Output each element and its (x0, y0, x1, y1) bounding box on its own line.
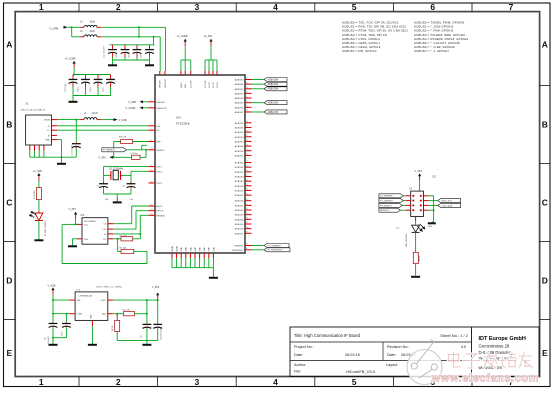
wire (415, 264, 417, 276)
svg-text:C8: C8 (45, 337, 47, 340)
svg-text:USB micro-B Input SMD 5U: USB micro-B Input SMD 5U (21, 108, 46, 111)
svg-text:100n: 100n (90, 88, 92, 92)
svg-text:V_CORE: V_CORE (126, 107, 136, 110)
node FT_RESET flag (102, 148, 149, 152)
svg-text:L1: L1 (84, 113, 87, 115)
supply flag V_3P3 (415, 170, 423, 191)
svg-text:TXD2_SDA: TXD2_SDA (441, 204, 452, 207)
svg-text:PREGOUT: PREGOUT (156, 108, 167, 110)
wire testpoint (142, 145, 147, 150)
svg-text:V_USB: V_USB (119, 119, 127, 122)
svg-text:ADBUS1: ADBUS1 (235, 83, 245, 86)
svg-text:EECS: EECS (156, 206, 162, 208)
svg-text:4: 4 (273, 2, 278, 12)
svg-text:V_3P3: V_3P3 (69, 208, 77, 211)
wire (57, 119, 80, 121)
svg-text:Author:: Author: (294, 363, 306, 367)
svg-text:Date:: Date: (294, 353, 303, 357)
svg-text:AGND: AGND (176, 245, 179, 251)
svg-text:V_3P3: V_3P3 (415, 170, 423, 173)
svg-text:A: A (6, 39, 12, 49)
svg-text:28: 28 (246, 140, 248, 142)
svg-text:23: 23 (151, 209, 153, 211)
svg-text:BDBUS7: BDBUS7 (235, 233, 245, 235)
svg-text:21: 21 (246, 101, 248, 103)
svg-text:I2C: I2C (433, 176, 437, 179)
svg-text:C6 100n: C6 100n (130, 153, 138, 155)
svg-text:D1 LED 1206/PY: D1 LED 1206/PY (45, 220, 47, 236)
node ADBUS7 flag (264, 110, 287, 114)
svg-text:34: 34 (246, 170, 248, 172)
svg-text:32: 32 (246, 161, 248, 163)
svg-text:ACBUS1: ACBUS1 (235, 126, 245, 129)
svg-text:ADBUS5#: ADBUS5# (268, 102, 279, 105)
svg-text:1: 1 (39, 377, 44, 387)
svg-text:BCBUS0: BCBUS0 (235, 163, 245, 165)
svg-text:B: B (542, 120, 548, 130)
node FT_SUSPEND flag (379, 199, 406, 203)
IC IC5 LP3990 regulator body (70, 287, 122, 326)
resistor R3 (112, 314, 120, 341)
wire (252, 102, 265, 104)
svg-text:VSS: VSS (84, 239, 89, 241)
svg-text:C11 10u/16V: C11 10u/16V (104, 46, 106, 58)
svg-text:27: 27 (246, 135, 248, 137)
svg-text:SUSPEND#: SUSPEND# (232, 250, 245, 252)
svg-text:FT2232HL: FT2232HL (176, 122, 191, 126)
title block IDT address (479, 336, 526, 370)
ground (68, 245, 77, 247)
svg-text:V_3P3: V_3P3 (152, 286, 160, 289)
svg-text:Date:: Date: (387, 353, 396, 357)
svg-text:IC5: IC5 (77, 289, 81, 291)
wire (159, 37, 161, 71)
wire D- (57, 125, 149, 127)
inductor L3 (80, 31, 101, 37)
node ADBUS2 flag (264, 87, 287, 91)
node FT_RESET flag (379, 203, 406, 207)
svg-text:Sheet No.: 1 / 2: Sheet No.: 1 / 2 (440, 333, 469, 338)
LED D2 (397, 224, 426, 247)
svg-text:BDBUS6: BDBUS6 (235, 229, 245, 231)
wire CS (113, 206, 149, 224)
svg-text:ADBUS0: ADBUS0 (235, 79, 245, 82)
svg-text:ACBUS7 = *, 1, GPIOH7: ACBUS7 = *, 1, GPIOH7 (414, 49, 449, 53)
svg-text:49: 49 (246, 248, 248, 250)
svg-text:2: 2 (116, 377, 121, 387)
svg-text:E: E (542, 348, 548, 358)
LED D1 (29, 211, 47, 236)
wire (415, 217, 417, 226)
svg-text:E: E (6, 348, 12, 358)
svg-text:R1 470R: R1 470R (34, 191, 36, 199)
svg-text:C3: C3 (122, 185, 126, 187)
wire (113, 142, 115, 158)
wire (165, 27, 167, 71)
svg-text:19: 19 (246, 92, 248, 94)
svg-text:BDBUS2: BDBUS2 (235, 210, 245, 212)
svg-text:ADBUS4: ADBUS4 (235, 97, 245, 100)
svg-text:GND: GND (428, 226, 433, 228)
svg-text:REF: REF (156, 142, 161, 144)
ground GND (428, 223, 436, 228)
svg-text:3: 3 (195, 377, 200, 387)
svg-text:EECLK: EECLK (156, 211, 164, 213)
svg-text:93LC46B/SN: 93LC46B/SN (84, 221, 96, 223)
svg-text:1: 1 (39, 2, 44, 12)
resistor R4 (114, 137, 149, 144)
svg-text:BCBUS3: BCBUS3 (235, 176, 245, 178)
IC U4 FT2232HL body (155, 75, 245, 253)
wire (52, 337, 66, 344)
svg-text:27p: 27p (130, 199, 134, 201)
wire (104, 194, 132, 202)
svg-text:D2: D2 (397, 227, 401, 229)
node ADBUS5 flag (264, 101, 287, 105)
svg-text:FT_PWREN#: FT_PWREN# (268, 245, 282, 247)
supply flag V_USB (48, 284, 56, 300)
svg-text:L2: L2 (80, 22, 83, 24)
svg-text:C10 47n/16V: C10 47n/16V (161, 328, 163, 340)
svg-text:VCCIOB: VCCIOB (191, 80, 193, 88)
svg-text:+V_CORE: +V_CORE (177, 35, 189, 38)
svg-text:BCBUS5: BCBUS5 (235, 186, 245, 188)
svg-text:FT_RESET#: FT_RESET# (380, 205, 393, 207)
svg-text:BCBUS2: BCBUS2 (235, 172, 245, 174)
wire (252, 79, 265, 81)
svg-text:48: 48 (246, 244, 248, 246)
svg-text:ADBUS7: ADBUS7 (235, 111, 245, 114)
svg-text:FT_PWREN#: FT_PWREN# (380, 196, 393, 198)
svg-text:26: 26 (246, 130, 248, 132)
svg-text:ADJ: ADJ (102, 313, 106, 316)
svg-text:EEDATA: EEDATA (156, 214, 165, 217)
wire (252, 111, 265, 113)
svg-text:PWREN#: PWREN# (234, 246, 244, 248)
node RXD2_SCL flag (429, 199, 461, 203)
svg-text:OSCI: OSCI (156, 167, 162, 169)
svg-text:ADBUS7#: ADBUS7# (268, 111, 279, 114)
svg-text:OSCO: OSCO (156, 171, 163, 173)
capacitor C12 (62, 314, 71, 338)
svg-text:30: 30 (246, 149, 248, 151)
svg-text:BCBUS7: BCBUS7 (235, 195, 245, 197)
svg-text:C: C (6, 198, 12, 208)
supply flag +V_3P3 comb (204, 35, 218, 71)
svg-text:www.elecfans.com: www.elecfans.com (431, 372, 539, 384)
svg-text:25: 25 (151, 214, 153, 216)
inductor L2 (80, 22, 101, 28)
capacitor bank C11 C17 C18 C19 (104, 45, 154, 65)
svg-text:Title: High Communication IF B: Title: High Communication IF Board (294, 333, 361, 338)
wire CLK (113, 211, 149, 229)
svg-text:ACBUS4: ACBUS4 (235, 140, 245, 143)
svg-text:100n: 100n (78, 88, 80, 92)
svg-text:ADBUS2#: ADBUS2# (268, 88, 279, 91)
wire (72, 27, 80, 37)
title block (290, 327, 539, 377)
svg-text:A: A (542, 39, 548, 49)
svg-text:20: 20 (246, 96, 248, 98)
capacitor C3 (122, 175, 135, 201)
node V_GPB input flag (128, 100, 149, 103)
svg-text:4: 4 (273, 377, 278, 387)
svg-text:R3 1K: R3 1K (112, 325, 114, 331)
svg-text:FT_SUSPND#: FT_SUSPND# (380, 201, 394, 203)
node FT_PWREN flag (379, 194, 406, 198)
svg-text:C13 100n: C13 100n (65, 83, 67, 92)
svg-text:44: 44 (246, 218, 248, 220)
capacitor C2 (97, 175, 110, 201)
svg-text:GND: GND (209, 247, 211, 252)
connector X2 I2C header (406, 176, 437, 217)
svg-text:ACBUS3: ACBUS3 (235, 136, 245, 139)
svg-text:C1 10n/16V: C1 10n/16V (72, 145, 74, 156)
svg-text:41: 41 (246, 204, 248, 206)
IC4 left pins (149, 100, 168, 217)
svg-text:X1: X1 (26, 102, 30, 106)
svg-text:23: 23 (246, 110, 248, 112)
wire VOUT (113, 299, 159, 301)
svg-text:File:: File: (294, 370, 301, 374)
svg-text:45: 45 (246, 222, 248, 224)
svg-text:GND: GND (213, 247, 215, 252)
svg-text:42: 42 (246, 208, 248, 210)
svg-text:L3: L3 (80, 31, 83, 33)
svg-text:GND: GND (91, 314, 93, 319)
capacitor C10 (153, 300, 162, 341)
svg-text:VCCIOB: VCCIOB (205, 80, 207, 88)
wire DI (113, 215, 149, 235)
svg-text:22: 22 (246, 106, 248, 108)
svg-text:43: 43 (246, 213, 248, 215)
capacitor C9 (141, 314, 152, 341)
svg-text:ACBUS2: ACBUS2 (235, 131, 245, 134)
svg-text:2: 2 (116, 2, 121, 12)
svg-text:3: 3 (151, 100, 152, 102)
svg-text:ADBUS6: ADBUS6 (235, 106, 245, 109)
svg-text:BDBUS4: BDBUS4 (235, 219, 245, 221)
wire (429, 196, 434, 222)
svg-text:RXD2_SCL: RXD2_SCL (441, 201, 453, 203)
svg-text:ACBUS0: ACBUS0 (235, 122, 245, 125)
capacitor C6 (114, 153, 146, 159)
svg-text:17: 17 (246, 82, 248, 84)
ground (113, 201, 122, 203)
svg-text:21: 21 (151, 204, 153, 206)
resistor R7 (118, 239, 147, 254)
svg-text:VOUT = VSET x (1 + R1/R2): VOUT = VSET x (1 + R1/R2) (96, 287, 122, 289)
wire (62, 224, 77, 263)
svg-text:39: 39 (246, 193, 248, 195)
svg-text:100n: 100n (141, 54, 143, 58)
IC4 bottom ground pins (171, 245, 215, 277)
wire (52, 313, 70, 315)
svg-text:GND: GND (190, 247, 192, 252)
svg-text:100n: 100n (62, 332, 64, 336)
node ADBUS1 flag (264, 82, 287, 86)
svg-text:+V_CORE: +V_CORE (65, 58, 77, 61)
svg-text:33: 33 (246, 165, 248, 167)
wire (73, 239, 78, 246)
wire (145, 149, 147, 158)
svg-text:D: D (6, 276, 12, 286)
svg-text:V_3P3: V_3P3 (99, 156, 107, 159)
svg-text:V_EN: V_EN (77, 314, 83, 316)
svg-text:HiComIFB_V3-0: HiComIFB_V3-0 (346, 369, 376, 374)
wire OSCO (131, 171, 149, 175)
resistor R5 (113, 300, 148, 316)
inductor L1 (80, 113, 101, 120)
node TXD2_SDA flag (429, 203, 461, 207)
capacitor C1 (72, 120, 81, 158)
svg-text:B: B (6, 120, 12, 130)
wire (52, 299, 70, 314)
capacitor bank C13 C14 C15 C16 (65, 74, 115, 102)
svg-text:BCBUS6: BCBUS6 (235, 190, 245, 192)
svg-text:Project No.:: Project No.: (294, 345, 314, 349)
ground (49, 344, 58, 346)
svg-text:DO: DO (103, 239, 107, 241)
svg-text:VIN: VIN (77, 300, 81, 302)
svg-text:BCBUS4: BCBUS4 (235, 181, 245, 183)
svg-text:LP3990SD-A#: LP3990SD-A# (79, 294, 94, 297)
svg-text:BDBUS5: BDBUS5 (235, 224, 245, 226)
svg-text:3.0: 3.0 (461, 345, 466, 349)
svg-text:13: 13 (151, 148, 153, 150)
svg-text:9: 9 (151, 129, 152, 131)
supply flag V_3P3 (69, 208, 78, 225)
svg-text:VCCIO: VCCIO (209, 81, 211, 88)
svg-text:VCCIO: VCCIO (213, 81, 215, 88)
svg-text:ADBUS0#: ADBUS0# (268, 78, 279, 81)
svg-text:R2 1K: R2 1K (419, 255, 421, 261)
svg-text:37: 37 (246, 184, 248, 186)
svg-text:17: 17 (151, 170, 153, 172)
svg-text:ACBUS6: ACBUS6 (235, 150, 245, 153)
svg-text:GND: GND (200, 247, 202, 252)
capacitor C8 (45, 314, 58, 344)
wire (57, 140, 62, 158)
svg-text:V_USB: V_USB (48, 284, 56, 287)
ground (142, 344, 151, 346)
svg-text:+V_3P3: +V_3P3 (204, 35, 213, 38)
node ADBUS7 flag (379, 208, 406, 212)
svg-text:ADBUS5: ADBUS5 (235, 102, 245, 105)
svg-text:25: 25 (246, 126, 248, 128)
svg-text:FT_SUSPEND#: FT_SUSPEND# (268, 250, 284, 252)
svg-text:Layout: Layout (386, 363, 398, 367)
svg-text:19: 19 (151, 181, 153, 183)
watermark elecfans (407, 340, 539, 385)
svg-text:V_GPB: V_GPB (128, 101, 136, 104)
svg-text:VOUT: VOUT (100, 300, 107, 302)
supply flag +V_CORE comb (177, 35, 191, 71)
ground (145, 64, 154, 66)
node V_USB flag (101, 118, 127, 122)
svg-text:BCBUS1: BCBUS1 (235, 167, 245, 169)
wire (110, 37, 155, 45)
ground (108, 64, 117, 66)
svg-text:40: 40 (246, 199, 248, 201)
svg-text:CS: CS (103, 224, 107, 226)
svg-text:6: 6 (430, 2, 435, 12)
svg-text:100n: 100n (103, 88, 105, 92)
svg-text:7: 7 (509, 2, 514, 12)
ground (88, 344, 97, 346)
svg-text:18: 18 (246, 87, 248, 89)
svg-text:31: 31 (246, 154, 248, 156)
svg-text:DP: DP (156, 130, 160, 132)
svg-text:X2: X2 (409, 188, 413, 191)
svg-text:ADBUS7#: ADBUS7# (380, 209, 390, 212)
svg-text:10uH: 10uH (90, 31, 96, 33)
svg-text:47: 47 (246, 232, 248, 234)
svg-text:VPLL: VPLL (185, 83, 187, 88)
svg-text:R4 12K: R4 12K (119, 137, 127, 139)
svg-text:PHLGIN: PHLGIN (156, 102, 165, 104)
IC IC6 93LC46B EEPROM body (77, 214, 113, 244)
wire (429, 209, 435, 211)
resistor R6 (113, 234, 140, 241)
svg-text:AGND: AGND (171, 245, 174, 251)
resistor R1 (34, 188, 42, 200)
svg-text:10uH: 10uH (90, 22, 96, 24)
svg-text:35: 35 (246, 175, 248, 177)
ground (411, 276, 420, 278)
svg-text:FT_RESET#: FT_RESET# (103, 150, 116, 152)
ground (209, 277, 218, 279)
svg-text:VBUS: VBUS (44, 120, 50, 122)
svg-text:15: 15 (151, 165, 153, 167)
svg-text:ACBUS7: ACBUS7 (235, 154, 245, 157)
svg-text:100n: 100n (129, 54, 131, 58)
supply flag +V_CORE (65, 58, 77, 75)
wire (117, 340, 158, 342)
svg-text:38: 38 (246, 189, 248, 191)
wire (62, 251, 147, 263)
wire (415, 232, 417, 252)
node V_CORE input flag (126, 106, 149, 109)
svg-text:VCC: VCC (84, 224, 89, 226)
svg-text:GND: GND (204, 247, 206, 252)
svg-text:GND: GND (186, 247, 188, 252)
svg-text:7: 7 (151, 124, 152, 126)
wire (252, 245, 265, 247)
svg-text:28.03.18: 28.03.18 (345, 353, 360, 357)
wire (252, 88, 265, 90)
svg-text:RESET#: RESET# (156, 150, 165, 152)
svg-text:IDT Europe GmbH: IDT Europe GmbH (479, 336, 526, 342)
svg-text:5: 5 (352, 377, 357, 387)
svg-text:GND: GND (195, 247, 197, 252)
svg-text:C9: C9 (141, 335, 143, 338)
svg-text:5: 5 (151, 106, 152, 108)
svg-text:10uH: 10uH (92, 113, 98, 115)
svg-text:VREGIN: VREGIN (160, 80, 162, 88)
IC4 top power pins (160, 71, 219, 88)
svg-text:36: 36 (246, 179, 248, 181)
svg-text:3: 3 (195, 2, 200, 12)
supply flag V_3P3 (152, 286, 160, 300)
svg-text:16: 16 (246, 78, 248, 80)
svg-text:VPHY: VPHY (181, 82, 183, 88)
node FT_PWREN flag (264, 244, 289, 248)
supply flag V_GPB (50, 26, 68, 31)
node ADBUS0 flag (264, 78, 287, 82)
svg-text:TEST: TEST (156, 183, 162, 185)
node FT_SUSPEND flag (264, 248, 290, 252)
